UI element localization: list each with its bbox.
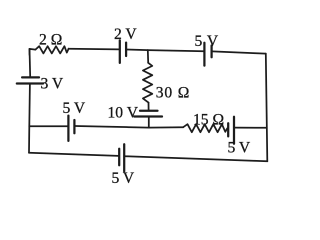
wire right side <box>266 54 268 162</box>
svg-text:10 V: 10 V <box>108 105 139 122</box>
wire bottom left segment <box>29 153 119 156</box>
wire node B to resistor R2 <box>149 126 183 128</box>
svg-text:30 Ω: 30 Ω <box>156 85 190 102</box>
wire B6 to right side <box>235 127 267 129</box>
wire left side lower <box>28 126 30 153</box>
battery B4 3 V <box>22 76 39 78</box>
svg-text:3 V: 3 V <box>41 76 64 93</box>
wire B5 to node B <box>75 126 149 128</box>
svg-text:2 V: 2 V <box>114 26 137 43</box>
svg-text:5 V: 5 V <box>228 140 251 157</box>
battery B6 5 V middle-right <box>227 123 229 136</box>
battery B7 10 V <box>140 110 158 112</box>
wire top-left corner to resistor R1 <box>30 49 36 55</box>
resistor R2 15 ohm <box>183 124 227 132</box>
svg-text:5 V: 5 V <box>63 100 86 117</box>
wire middle-left to battery B5 <box>29 125 67 127</box>
wire node A to battery B2 <box>148 50 204 51</box>
wire bottom right segment <box>125 156 268 161</box>
battery B2 5 V <box>203 43 205 66</box>
wire B1 to node A <box>127 49 148 52</box>
resistor R3 30 ohm <box>143 63 152 103</box>
wire node A down to resistor R3 <box>147 50 149 63</box>
wire R1 to battery B1 <box>69 48 119 51</box>
wire B2 to top-right corner <box>212 51 265 53</box>
svg-text:2 Ω: 2 Ω <box>39 31 62 48</box>
battery B3 5 V bottom <box>118 149 120 165</box>
wire B7 to node B <box>148 117 150 127</box>
svg-text:5 V: 5 V <box>112 170 135 187</box>
wire R3 to battery B7 <box>148 103 150 110</box>
battery B5 5 V middle-left <box>67 116 69 141</box>
battery B1 2 V <box>119 40 121 63</box>
resistor R1 2 ohm <box>35 46 68 53</box>
wire left side upper <box>29 49 32 77</box>
svg-text:15 Ω: 15 Ω <box>193 111 224 128</box>
wire left side middle <box>28 84 31 126</box>
svg-text:5 V: 5 V <box>195 33 219 50</box>
